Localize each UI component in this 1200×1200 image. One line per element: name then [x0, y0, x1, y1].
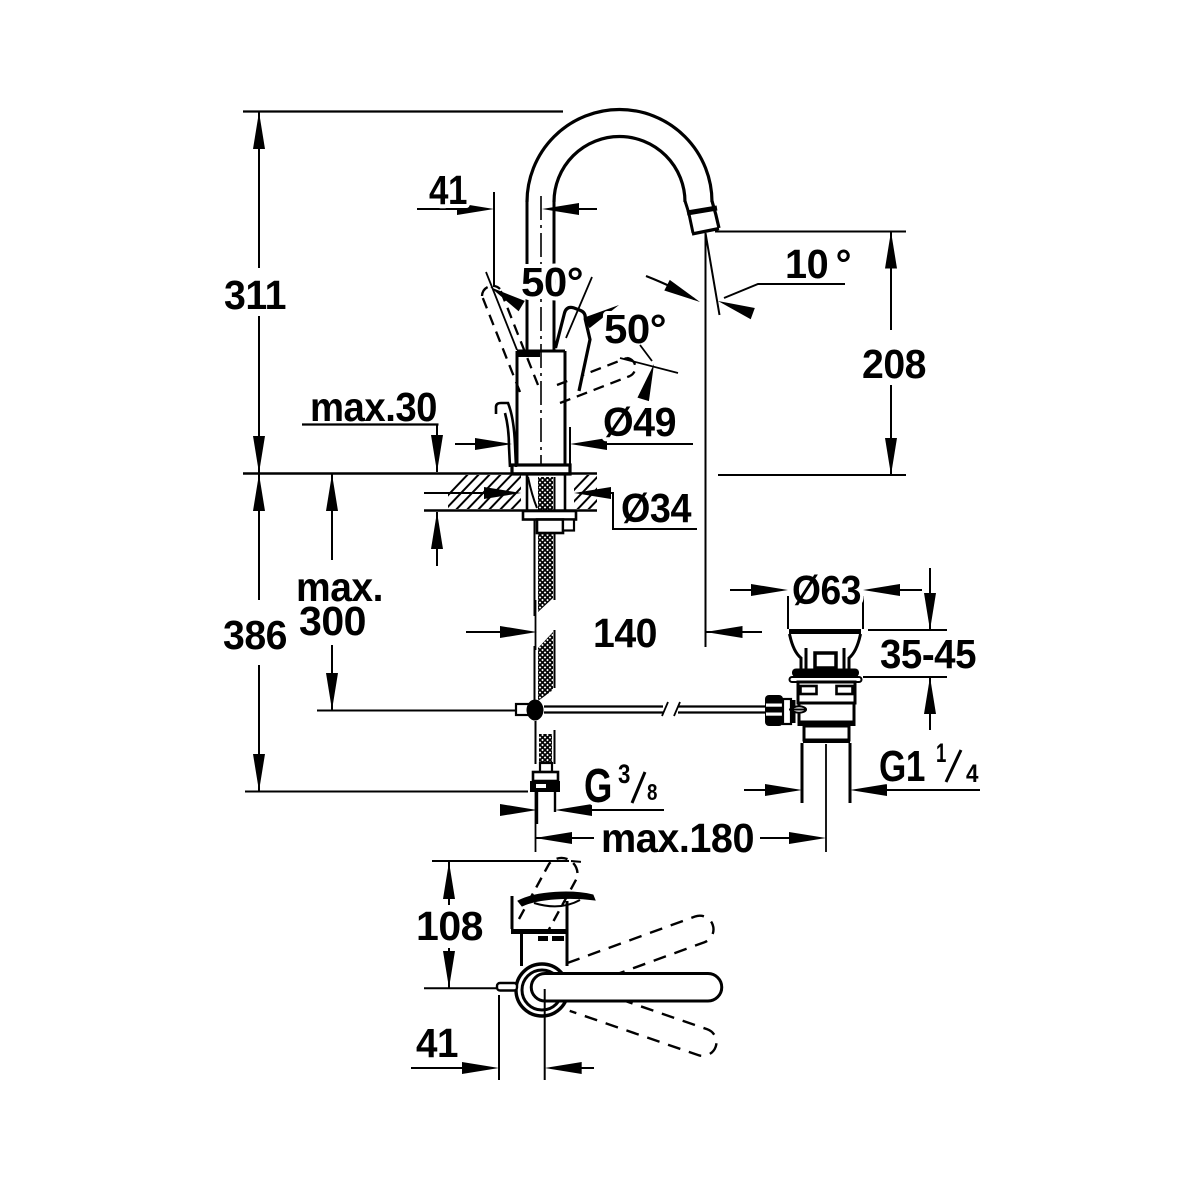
svg-text:G1: G1 [879, 742, 925, 791]
hose collar [533, 772, 558, 781]
spout tip inner edge [685, 201, 693, 233]
angle leg line right [566, 277, 592, 338]
dimension max180 [535, 837, 794, 839]
countertop top line [243, 472, 597, 475]
angle ext line lower [620, 358, 678, 373]
spout riser left edge [526, 202, 529, 351]
body cylinder [517, 351, 565, 467]
svg-text:Ø34: Ø34 [621, 485, 692, 531]
valve inner circle [522, 970, 562, 1010]
ext line d49 [569, 427, 571, 465]
hose link line [535, 600, 537, 650]
svg-text:max.180: max.180 [601, 815, 754, 861]
dimension 311 line [258, 112, 260, 473]
10 deg leader [724, 284, 845, 298]
shank hole right line [564, 475, 567, 510]
drain slot square [815, 653, 836, 668]
solid lever handle [556, 307, 591, 391]
dimension 140 [466, 631, 762, 633]
svg-text:8: 8 [647, 779, 658, 805]
angle leg line left [486, 272, 517, 350]
countertop hatching [430, 470, 626, 514]
svg-text:208: 208 [862, 341, 926, 387]
dimension 208 bottom line [718, 474, 906, 476]
arrow swivel [664, 280, 702, 307]
ext lines 41 bottom [499, 989, 545, 1080]
lever plan solid [531, 974, 721, 1002]
cartridge cap bar [518, 352, 540, 357]
10 deg tilted line [706, 233, 720, 315]
drain black collar [792, 669, 859, 678]
handle body left edge [511, 896, 514, 929]
svg-text:108: 108 [416, 903, 483, 949]
dimension 108 [448, 862, 450, 988]
arrow 10 deg [716, 295, 755, 319]
arrow 50 lower [637, 362, 659, 401]
svg-text:10 °: 10 ° [785, 241, 851, 287]
35-45 ext lines [863, 630, 947, 677]
svg-text:300: 300 [299, 598, 366, 644]
nipple centerline [535, 792, 537, 852]
water stream line [705, 233, 707, 647]
dimension 41 bottom [411, 1067, 594, 1069]
lever pad under arc [534, 900, 580, 906]
spout riser right edge [553, 202, 556, 351]
clamp screw [792, 706, 806, 712]
svg-text:41: 41 [429, 167, 467, 213]
drain flange top bar [789, 629, 861, 634]
dimension G1 1/4 [744, 789, 980, 791]
386 bottom ref line [245, 791, 528, 793]
hose curve in shank [528, 477, 537, 508]
G3/8 nut [530, 781, 560, 792]
T junction dot [527, 700, 544, 721]
dimension d34 [424, 493, 697, 529]
mounting nut [537, 520, 563, 534]
drain body lower [799, 703, 854, 722]
spout outer arc [527, 110, 712, 203]
max.30 underline [302, 423, 439, 425]
countertop bottom line [424, 509, 597, 512]
108 bottom ref line [424, 987, 497, 989]
svg-text:G: G [584, 760, 612, 813]
leader 50 lower [640, 345, 652, 361]
max300 bottom ref line [317, 710, 518, 712]
escutcheon markers [538, 936, 548, 941]
rod clamp [783, 699, 791, 724]
shank hole left line [526, 475, 529, 510]
nipple [537, 792, 555, 824]
handle body bottom bar [511, 929, 568, 934]
rod end cap [516, 704, 530, 715]
svg-text:311: 311 [224, 272, 286, 318]
dashed lever rotated right [557, 358, 635, 403]
arrow 50 upper left [487, 282, 525, 311]
svg-text:4: 4 [966, 760, 979, 788]
pop-up rod hook [496, 403, 516, 467]
dimension 208 top line [715, 231, 906, 233]
valve outer circle [516, 964, 568, 1016]
rod knurled knob [765, 695, 783, 726]
dimension d63 [730, 589, 922, 591]
svg-text:386: 386 [223, 612, 287, 658]
drain white plate [790, 677, 862, 682]
braided hose middle [538, 632, 553, 701]
dimension G3/8 [501, 809, 664, 811]
nut side step [563, 520, 574, 531]
lever plan dashed down [570, 985, 720, 1060]
dimension max300 line [331, 474, 333, 710]
drain mid section [804, 726, 849, 740]
max.30 up arrow [436, 512, 438, 566]
lever pad plan [518, 892, 595, 906]
drain funnel left side [790, 634, 807, 669]
braided hose upper [538, 477, 553, 612]
dimension 208 line [890, 232, 892, 476]
top reference line 311 [243, 110, 563, 112]
hose connector [540, 763, 552, 772]
side pin [497, 983, 517, 991]
pop-up rod [544, 707, 765, 713]
svg-text:1: 1 [936, 738, 946, 768]
svg-text:140: 140 [593, 610, 657, 656]
dashed lever rotated left [482, 286, 538, 392]
lever plan dashed up [567, 912, 717, 989]
drain body upper [798, 682, 855, 703]
dashed spout plan [519, 858, 578, 933]
spout tip outer edge [712, 201, 719, 228]
svg-text:Ø49: Ø49 [603, 399, 676, 445]
spout inner arc [554, 137, 685, 202]
base flange [512, 465, 570, 474]
ext line 41 top [493, 192, 495, 287]
drain tailpipe [802, 743, 850, 803]
svg-text:3: 3 [618, 759, 630, 789]
dimension 35-45 [929, 568, 931, 730]
washer under counter [523, 511, 576, 520]
svg-text:max.30: max.30 [310, 384, 437, 430]
braided hose lower [539, 734, 552, 763]
dimension 386 line [258, 474, 260, 791]
arrow 50 upper right [584, 300, 622, 328]
rod break marks [662, 702, 680, 716]
dimension 41 top [417, 208, 597, 210]
drain body slots [801, 686, 817, 694]
max180 ext line [825, 744, 827, 852]
svg-text:50°: 50° [521, 259, 583, 305]
aerator joint bar [687, 208, 717, 213]
drain funnel right side [844, 634, 861, 669]
dimension d49 [455, 443, 693, 445]
108 top ref line [432, 860, 569, 862]
svg-text:35-45: 35-45 [880, 631, 976, 677]
handle body right edge [566, 901, 569, 966]
svg-text:50°: 50° [604, 306, 666, 352]
d63 ext lines [788, 596, 863, 629]
svg-text:Ø63: Ø63 [792, 567, 861, 613]
max.30 down arrow [436, 424, 438, 472]
outlet face [692, 229, 719, 235]
faucet centerline [540, 196, 542, 472]
svg-text:41: 41 [416, 1020, 458, 1066]
escutcheon left edge [520, 934, 523, 966]
swivel arc [646, 276, 694, 299]
